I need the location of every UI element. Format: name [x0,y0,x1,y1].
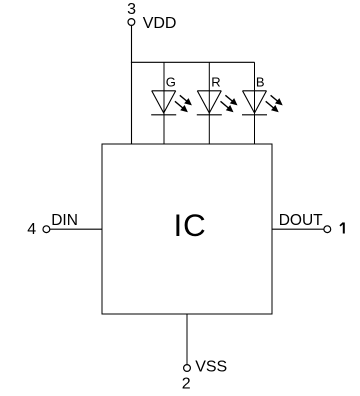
svg-text:2: 2 [182,376,191,393]
svg-text:3: 3 [127,1,136,18]
svg-text:DOUT: DOUT [279,212,323,229]
svg-text:DIN: DIN [51,212,78,229]
svg-text:VDD: VDD [143,15,177,32]
svg-text:R: R [211,75,220,90]
svg-text:IC: IC [174,207,207,243]
svg-text:G: G [166,75,176,90]
svg-text:4: 4 [27,221,36,238]
svg-text:B: B [256,75,265,90]
svg-text:VSS: VSS [195,359,227,376]
